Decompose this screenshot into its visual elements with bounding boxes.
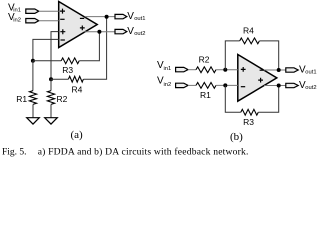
- resistor R4 (b): [240, 38, 260, 44]
- wire Vin1 to pin1: [39, 10, 59, 12]
- resistor R1 (b): [196, 83, 216, 89]
- wire Vin2 to pin2: [39, 20, 59, 22]
- wire node A to R1: [32, 61, 34, 91]
- output port Vout1 (b) terminal: [286, 68, 298, 72]
- svg-text:(b): (b): [230, 131, 243, 143]
- svg-text:in1: in1: [164, 66, 172, 72]
- svg-text:R2: R2: [57, 94, 68, 104]
- ground under R2: [45, 118, 58, 124]
- wire R4 to Vout1 node: [83, 17, 106, 79]
- label Vin1 (b): [157, 60, 171, 72]
- op-amp U1 pin label - (pin4): [61, 39, 65, 41]
- op-amp U1 output label + (out2): [80, 26, 85, 31]
- resistor R2: [47, 91, 54, 105]
- svg-text:out1: out1: [305, 70, 316, 76]
- node A junction: [31, 59, 35, 63]
- junction on Vout1 wire: [105, 15, 109, 19]
- op-amp U1 pin label + (pin1): [60, 9, 65, 14]
- resistor R3 (b): [241, 109, 258, 115]
- wire out1 to Vout1 port (b): [264, 69, 286, 71]
- junction out1 node: [277, 68, 281, 72]
- svg-text:R1: R1: [200, 90, 211, 100]
- wire pin4 to node A: [33, 39, 59, 60]
- svg-text:out2: out2: [305, 85, 316, 91]
- output port Vout2 terminal: [115, 29, 127, 33]
- svg-text:in2: in2: [13, 18, 21, 24]
- svg-text:in2: in2: [164, 82, 172, 88]
- op-amp U1 pin label + (pin3): [60, 29, 65, 34]
- label Vout2 (b): [299, 80, 317, 91]
- wire R3 to Vout2 node: [79, 32, 99, 61]
- resistor R4: [68, 76, 83, 82]
- svg-text:R3: R3: [243, 117, 254, 127]
- svg-text:R4: R4: [243, 26, 254, 36]
- wire pin3 to node B: [51, 32, 59, 80]
- op-amp U2 pin label -: [241, 86, 245, 88]
- label Vout2: [127, 26, 145, 37]
- wire R3 up to out2 node: [258, 86, 278, 113]
- svg-text:R2: R2: [199, 54, 210, 64]
- resistor R1: [29, 91, 36, 105]
- op-amp U1 (FDDA) body: [59, 2, 97, 48]
- op-amp U2 output label -: [260, 69, 264, 71]
- resistor R2 (b): [196, 67, 216, 73]
- junction on Vout2 wire: [97, 30, 101, 34]
- label Vin2 (b): [157, 76, 171, 88]
- op-amp U1 pin label - (pin2): [60, 18, 64, 20]
- wire R4 down to out1 node: [259, 41, 278, 70]
- svg-text:R3: R3: [62, 65, 73, 75]
- label Vin2: [8, 12, 21, 23]
- svg-text:V: V: [127, 26, 134, 37]
- label Vout1: [127, 11, 145, 22]
- wire out2 to Vout2 port (b): [264, 85, 286, 87]
- node B junction: [49, 77, 53, 81]
- ground under R1: [27, 118, 40, 124]
- input port Vin2 (b) terminal: [176, 83, 188, 87]
- svg-text:out1: out1: [134, 16, 145, 22]
- op-amp U2 output label +: [258, 78, 263, 83]
- input port Vin1 terminal: [26, 9, 39, 13]
- input port Vin2 terminal: [26, 19, 39, 23]
- op-amp U2 (DA) body: [238, 55, 277, 102]
- junction out2 node: [277, 84, 281, 88]
- wire R2 to ground: [50, 104, 52, 117]
- wire R1 to ground: [32, 104, 34, 117]
- wire - node down to R3: [225, 85, 241, 112]
- junction + input node: [223, 68, 227, 72]
- svg-text:V: V: [127, 11, 134, 22]
- wire Vin2 to R1: [188, 84, 196, 86]
- wire out1 to Vout1 port: [85, 16, 115, 18]
- wire node B to R2: [50, 79, 52, 90]
- wire R2 to + input: [216, 69, 238, 71]
- svg-text:R4: R4: [72, 84, 83, 94]
- label Vout1 (b): [299, 64, 317, 75]
- svg-text:a) FDDA and b) DA circuits wit: a) FDDA and b) DA circuits with feedback…: [38, 147, 249, 157]
- op-amp U1 output label - (out1): [80, 17, 84, 19]
- junction - input node: [223, 83, 227, 87]
- wire Vin1 to R2: [188, 69, 196, 71]
- input port Vin1 (b) terminal: [176, 67, 188, 71]
- svg-text:R1: R1: [16, 94, 27, 104]
- wire R1 to - input: [216, 84, 238, 86]
- svg-text:Fig. 5.: Fig. 5.: [2, 148, 27, 157]
- wire node A to R3: [33, 60, 61, 62]
- wire + node up to R4: [225, 41, 239, 70]
- output port Vout1 terminal: [115, 14, 127, 18]
- svg-text:out2: out2: [134, 31, 145, 37]
- resistor R3: [61, 58, 79, 64]
- wire node B to R4: [51, 78, 68, 80]
- wire out2 to Vout2 port: [84, 31, 115, 33]
- svg-text:(a): (a): [71, 129, 84, 141]
- output port Vout2 (b) terminal: [286, 83, 298, 87]
- op-amp U2 pin label +: [241, 67, 246, 72]
- label Vin1: [8, 3, 21, 14]
